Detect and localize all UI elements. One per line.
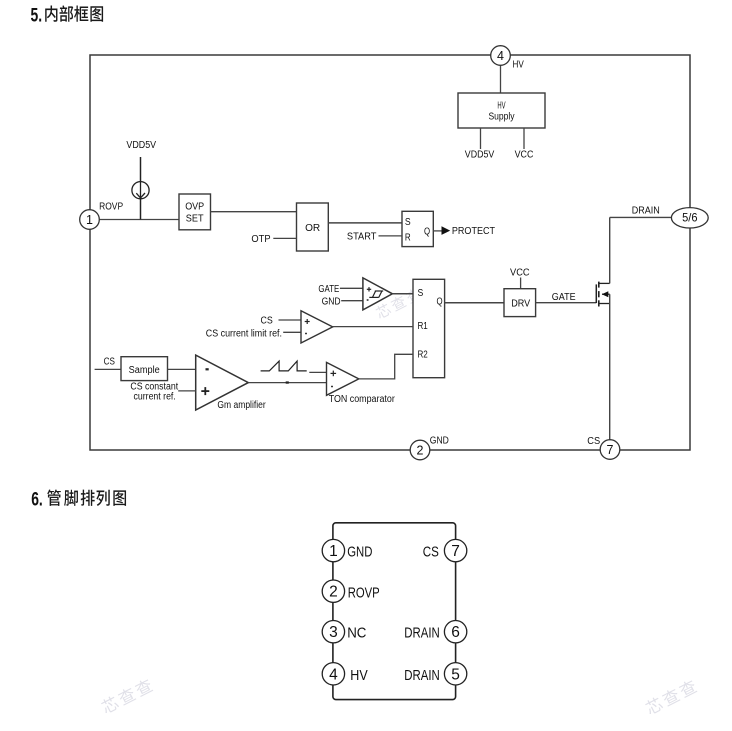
svg-text:DRAIN: DRAIN <box>404 668 440 684</box>
svg-text:HV: HV <box>513 60 525 71</box>
svg-text:Q: Q <box>424 226 430 238</box>
svg-text:5.: 5. <box>31 5 43 26</box>
svg-text:OR: OR <box>305 222 321 234</box>
svg-text:2: 2 <box>417 444 424 458</box>
svg-text:GATE: GATE <box>552 292 576 303</box>
svg-text:7: 7 <box>451 543 460 560</box>
svg-text:OVP: OVP <box>185 201 204 212</box>
svg-text:S: S <box>405 216 411 228</box>
svg-text:R1: R1 <box>418 320 428 332</box>
svg-text:CS current limit ref.: CS current limit ref. <box>206 328 282 339</box>
svg-text:CS: CS <box>587 436 600 447</box>
svg-text:R2: R2 <box>418 348 428 360</box>
svg-text:5/6: 5/6 <box>682 211 698 225</box>
svg-text:DRV: DRV <box>511 297 530 309</box>
svg-text:Supply: Supply <box>488 112 514 123</box>
svg-text:SET: SET <box>186 213 204 224</box>
svg-text:VCC: VCC <box>515 149 534 160</box>
svg-text:6: 6 <box>451 624 460 641</box>
svg-text:Q: Q <box>437 295 443 307</box>
svg-text:CS: CS <box>423 545 439 561</box>
svg-text:CS: CS <box>104 357 116 368</box>
svg-text:S: S <box>418 287 424 299</box>
svg-text:ROVP: ROVP <box>99 202 123 213</box>
svg-text:R: R <box>405 231 411 243</box>
svg-text:GND: GND <box>430 436 449 447</box>
svg-text:1: 1 <box>329 543 338 560</box>
svg-text:HV: HV <box>497 101 505 112</box>
svg-text:VDD5V: VDD5V <box>126 140 156 151</box>
svg-text:4: 4 <box>329 666 338 683</box>
svg-text:Sample: Sample <box>129 365 161 376</box>
svg-text:PROTECT: PROTECT <box>452 226 495 237</box>
svg-text:current ref.: current ref. <box>134 391 176 402</box>
svg-text:5: 5 <box>451 666 460 683</box>
svg-text:7: 7 <box>607 443 614 457</box>
svg-text:NC: NC <box>347 626 366 642</box>
svg-text:DRAIN: DRAIN <box>632 206 660 217</box>
svg-text:DRAIN: DRAIN <box>404 626 440 642</box>
svg-text:3: 3 <box>329 624 338 641</box>
svg-text:GND: GND <box>347 545 372 561</box>
svg-text:OTP: OTP <box>251 234 271 245</box>
svg-text:HV: HV <box>350 668 368 684</box>
svg-text:6.: 6. <box>31 490 43 511</box>
svg-text:CS: CS <box>261 316 274 327</box>
svg-text:GATE: GATE <box>318 284 339 295</box>
svg-text:ROVP: ROVP <box>348 586 380 602</box>
svg-text:VCC: VCC <box>510 267 530 278</box>
svg-text:START: START <box>347 232 377 243</box>
svg-text:2: 2 <box>329 584 338 601</box>
svg-text:VDD5V: VDD5V <box>465 149 495 160</box>
svg-text:Gm amplifier: Gm amplifier <box>217 400 266 411</box>
svg-text:GND: GND <box>322 297 341 308</box>
svg-text:TON comparator: TON comparator <box>329 394 396 405</box>
svg-text:4: 4 <box>497 49 504 63</box>
svg-text:1: 1 <box>86 213 93 227</box>
